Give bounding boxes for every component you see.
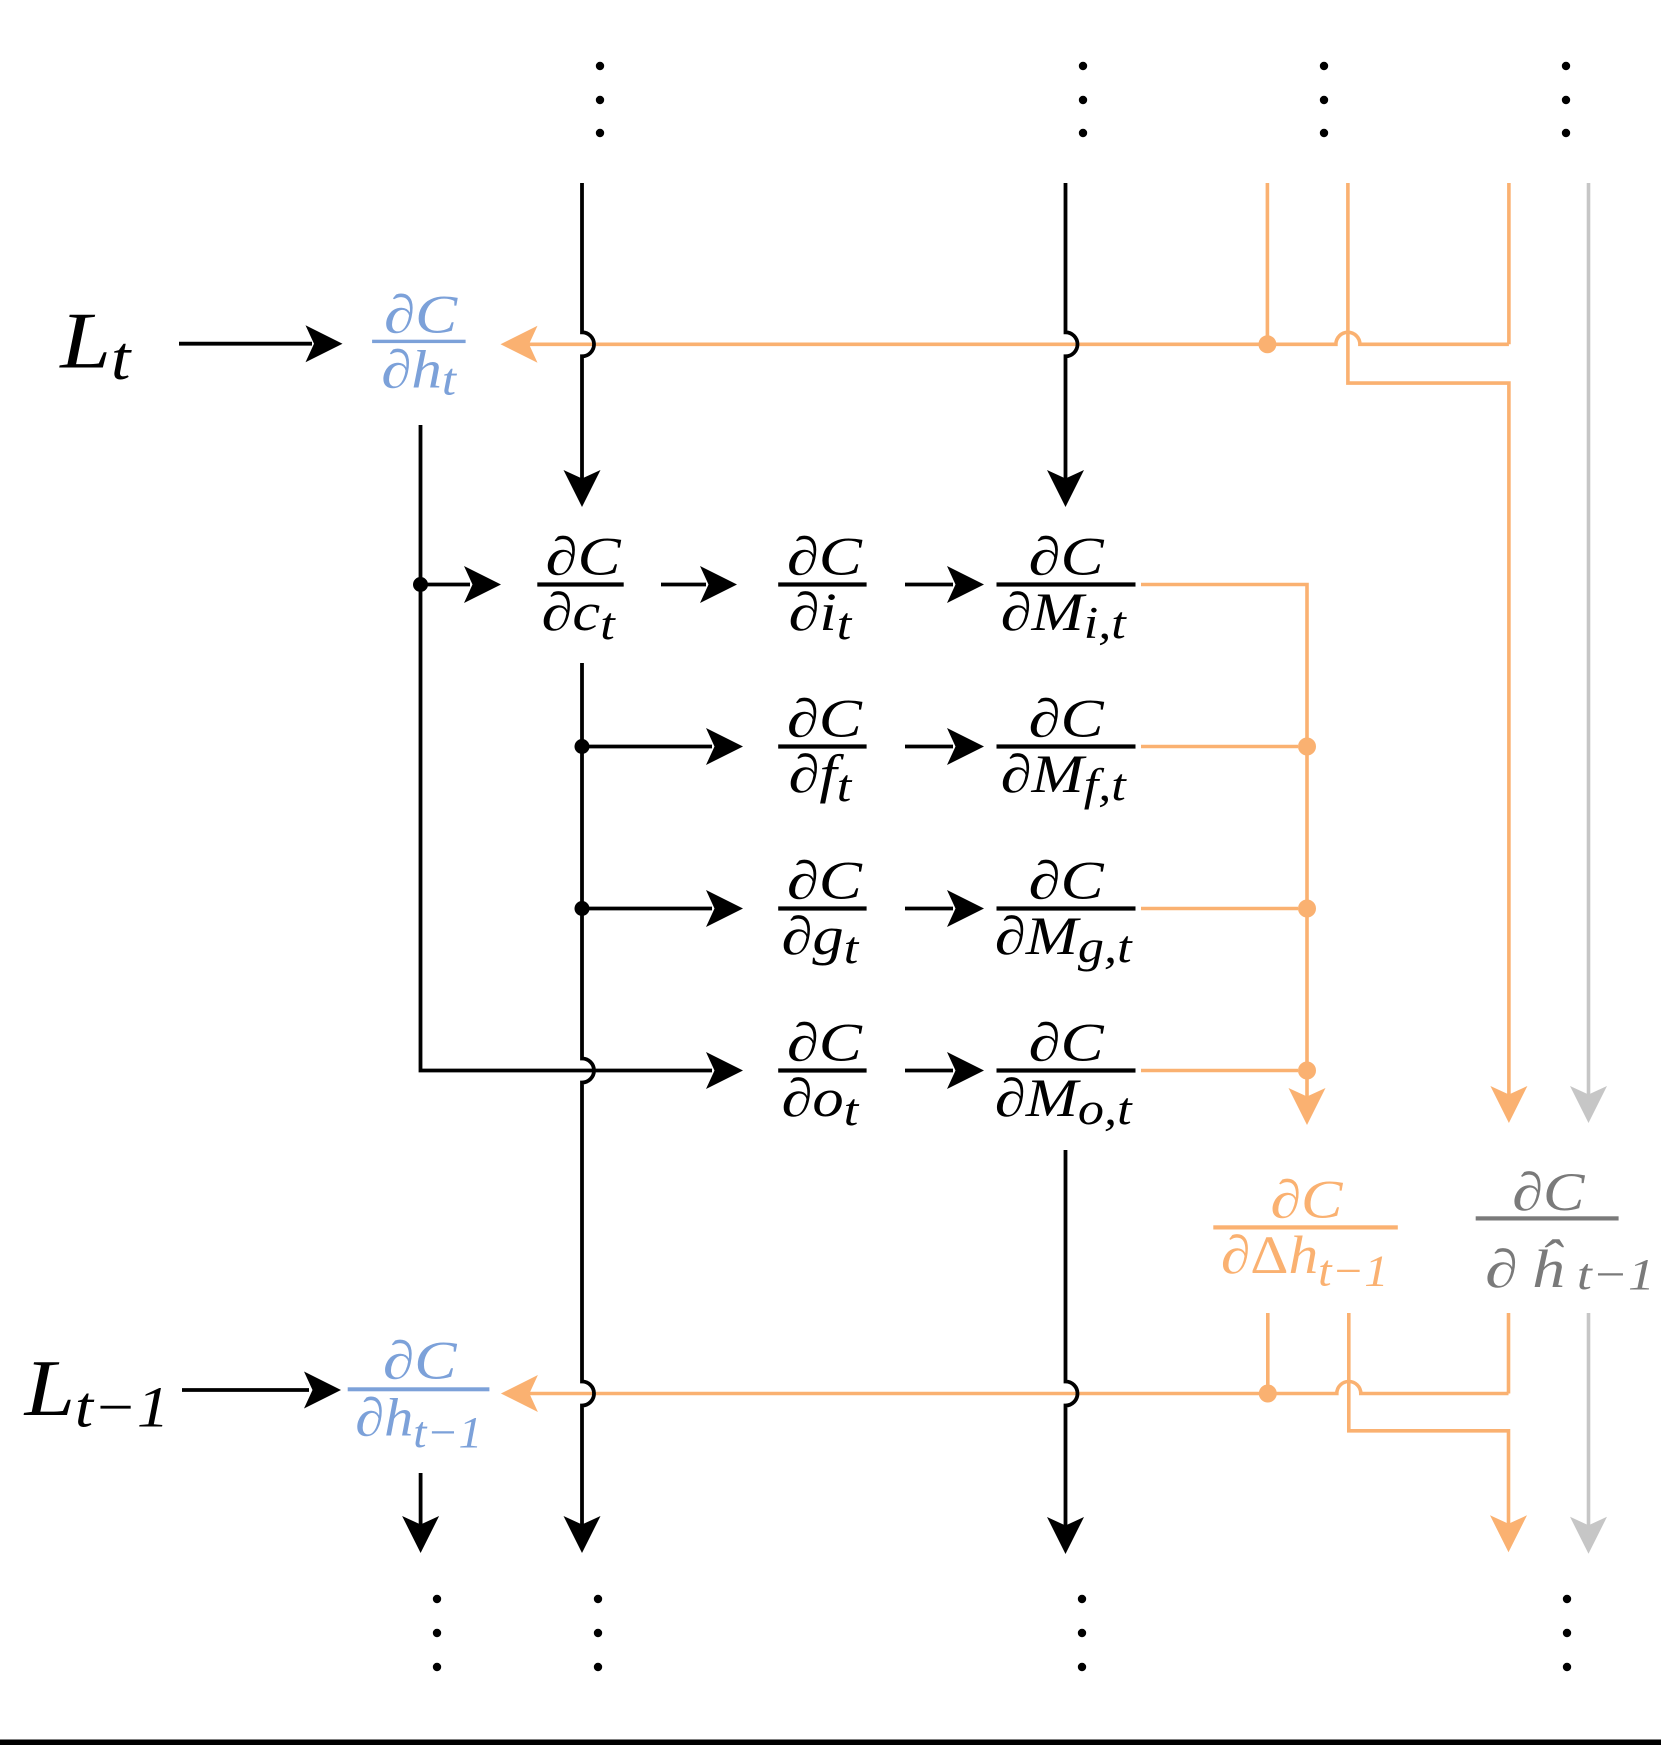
svg-text:∂gt: ∂gt xyxy=(781,906,859,973)
orange vertical joining top bus corner xyxy=(1507,183,1511,344)
arrow L_t into dC/dh_t xyxy=(179,342,312,346)
label dC/dh-hat_{t-1} (gray) xyxy=(1476,1216,1619,1220)
svg-text:∂ct: ∂ct xyxy=(541,582,616,649)
orange arrowhead left into dC/dh_{t-1} xyxy=(501,1375,538,1412)
orange stub from dC/dM_{o,t} xyxy=(1141,1069,1298,1073)
node bottom ellipsis column 3 xyxy=(1078,1595,1086,1603)
orange bus top: recurrent gradient into dC/dh_t xyxy=(529,332,1509,344)
orange vertical from upper timestep ending in junction dot xyxy=(1266,183,1270,340)
svg-text:∂C: ∂C xyxy=(787,688,863,748)
svg-text:∂ht−1: ∂ht−1 xyxy=(355,1388,482,1456)
arrowhead down to lower timestep M column xyxy=(1047,1517,1084,1554)
arrow dC/di_t to dC/dM_{i,t} xyxy=(905,583,953,587)
svg-text:∂C: ∂C xyxy=(1029,526,1105,586)
gray arrowhead down into dC/dh-hat_{t-1} xyxy=(1570,1086,1607,1123)
arrow dC/dc_t to dC/di_t xyxy=(661,583,706,587)
orange arrowhead down into dC/dh-hat_{t-1} xyxy=(1490,1086,1527,1123)
label dC/dM_{g,t} xyxy=(997,906,1136,910)
orange bus bottom: recurrent gradient into dC/dh_{t-1} xyxy=(529,1382,1509,1394)
orange junction dot g row xyxy=(1298,900,1316,918)
arrow into dC/dg_t xyxy=(582,907,712,911)
arrowhead down to lower timestep c column xyxy=(564,1516,601,1553)
junction dot c_t to f_t row xyxy=(575,739,590,754)
orange stub from dC/dM_{g,t} xyxy=(1141,907,1298,911)
label dC/dM_{i,t} xyxy=(997,582,1136,586)
orange junction dot f row xyxy=(1298,738,1316,756)
node bottom ellipsis column 1 xyxy=(433,1595,441,1603)
orange stub from dC/dM_{f,t} xyxy=(1141,745,1298,749)
orange arrowhead left into dC/dh_t xyxy=(501,326,538,363)
svg-text:∂C: ∂C xyxy=(1029,850,1105,910)
arrowhead down into dC/dM_{i,t} xyxy=(1047,470,1084,507)
svg-text:∂C: ∂C xyxy=(546,526,622,586)
gray arrowhead down to earlier timestep xyxy=(1570,1517,1607,1554)
wire black vertical M column feed, hops orange bus xyxy=(1066,183,1078,479)
arrow dC/do_t to dC/dM_{o,t} xyxy=(905,1069,953,1073)
orange wire from dC/dM_{i,t} right then down collecting M rows xyxy=(1141,585,1307,1098)
svg-text:∂Mf,t: ∂Mf,t xyxy=(1001,744,1128,810)
arrowhead right into dC/do_t xyxy=(706,1052,743,1089)
svg-text:Lt: Lt xyxy=(58,295,132,393)
label dC/dc_t xyxy=(537,582,623,586)
svg-text:∂C: ∂C xyxy=(383,1331,457,1391)
svg-text:∂Δht−1: ∂Δht−1 xyxy=(1221,1226,1389,1296)
label dC/dh_t (blue) xyxy=(372,340,466,343)
gray vertical h-hat path from upper timestep into dC/dh-hat_{t-1} xyxy=(1587,183,1591,1095)
orange vertical below dC/dDelta-h_{t-1} through bus, jog right, down xyxy=(1349,1313,1509,1524)
orange vertical below dC/dDelta-h_{t-1} ending in junction dot xyxy=(1266,1313,1270,1389)
node bottom ellipsis column 4 xyxy=(1563,1595,1571,1603)
label dC/do_t xyxy=(778,1068,866,1072)
junction dot h_t branch to c_t row xyxy=(413,577,428,592)
svg-text:∂C: ∂C xyxy=(787,1012,863,1072)
orange junction dot o row xyxy=(1298,1062,1316,1080)
wire from dC/dh_t down then right toward dC/do_t xyxy=(421,425,713,1071)
label dC/dh_{t-1} (blue) xyxy=(348,1387,490,1391)
arrowhead down into dC/dc_t xyxy=(564,470,601,507)
wire black vertical h_t recurrent feed into dC/dc_t, hops orange bus xyxy=(582,183,594,479)
svg-text:∂C: ∂C xyxy=(384,285,458,345)
svg-text:∂Mo,t: ∂Mo,t xyxy=(995,1068,1133,1134)
label dC/dM_{o,t} xyxy=(997,1068,1136,1072)
label dC/df_t xyxy=(778,744,866,748)
arrow from junction into dC/dc_t xyxy=(421,583,471,587)
node top ellipsis column 1 xyxy=(596,62,604,70)
svg-text:∂C: ∂C xyxy=(1029,1012,1105,1072)
arrow dC/dg_t to dC/dM_{g,t} xyxy=(905,907,953,911)
wire black vertical below dC/dc_t to lower timestep, hops o-row and orange bus xyxy=(582,663,594,1525)
svg-text:∂Mg,t: ∂Mg,t xyxy=(995,906,1133,972)
arrow into dC/df_t xyxy=(582,745,712,749)
svg-text:∂it: ∂it xyxy=(788,582,852,649)
svg-text:Lt−1: Lt−1 xyxy=(24,1342,170,1439)
svg-text:∂ ĥ t−1: ∂ ĥ t−1 xyxy=(1485,1238,1655,1300)
label dC/dDelta-h_{t-1} (orange) xyxy=(1213,1225,1398,1229)
svg-text:∂C: ∂C xyxy=(1029,688,1105,748)
svg-text:∂C: ∂C xyxy=(1270,1169,1343,1229)
node top ellipsis column 4 xyxy=(1562,62,1570,70)
label dC/dM_{f,t} xyxy=(997,744,1136,748)
label dC/dg_t xyxy=(778,906,866,910)
junction dot c_t to g_t row xyxy=(575,901,590,916)
node top ellipsis column 3 xyxy=(1320,62,1328,70)
arrow below dC/dh_{t-1} to earlier timestep xyxy=(419,1473,423,1525)
orange arrowhead down into dC/dDelta-h_{t-1} xyxy=(1289,1088,1326,1125)
orange arrowhead down to earlier timestep xyxy=(1490,1515,1527,1552)
arrow L_{t-1} into dC/dh_{t-1} xyxy=(182,1388,309,1392)
gray vertical below dC/dh-hat_{t-1} to earlier timestep xyxy=(1587,1313,1591,1526)
svg-text:∂Mi,t: ∂Mi,t xyxy=(1001,582,1128,648)
svg-text:∂ht: ∂ht xyxy=(381,341,458,405)
svg-text:∂C: ∂C xyxy=(787,526,863,586)
orange junction dot on top bus xyxy=(1258,335,1276,353)
svg-text:∂ot: ∂ot xyxy=(781,1068,859,1135)
svg-text:∂C: ∂C xyxy=(787,850,863,910)
svg-text:∂ft: ∂ft xyxy=(788,744,852,811)
node bottom ellipsis column 2 xyxy=(594,1595,602,1603)
svg-text:∂C: ∂C xyxy=(1512,1162,1585,1222)
wire black vertical below dC/dM_{o,t} to lower timestep, hops orange bus xyxy=(1066,1150,1078,1526)
arrow dC/df_t to dC/dM_{f,t} xyxy=(905,745,953,749)
orange vertical through bus, jog right, down into dC/dh-hat_{t-1} xyxy=(1348,183,1509,1095)
label dC/di_t xyxy=(778,582,866,586)
orange junction dot bottom bus xyxy=(1259,1385,1277,1403)
node top ellipsis column 2 xyxy=(1079,62,1087,70)
bottom figure border xyxy=(0,1740,1661,1746)
orange vertical below dC/dh-hat_{t-1} joining bottom bus corner xyxy=(1507,1313,1511,1394)
